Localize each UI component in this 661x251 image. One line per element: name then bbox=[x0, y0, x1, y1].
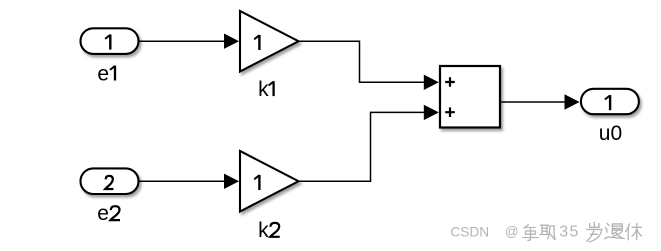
gain block k2 bbox=[240, 151, 299, 212]
svg-text:@: @ bbox=[505, 224, 519, 239]
char zheng (争) bbox=[523, 225, 539, 241]
svg-text:u0: u0 bbox=[599, 122, 622, 145]
svg-text:k: k bbox=[258, 219, 269, 242]
svg-text:e: e bbox=[97, 63, 109, 86]
gain k1 value 1 bbox=[254, 35, 259, 50]
char xiu (休) bbox=[626, 224, 642, 240]
arrowhead into k1 bbox=[224, 34, 239, 49]
svg-text:CSDN: CSDN bbox=[450, 224, 489, 239]
gain block k1 bbox=[240, 11, 299, 72]
wire sum to u0 bbox=[500, 101, 566, 103]
inport e2 port number 2 bbox=[105, 176, 113, 189]
wire e1 to k1 bbox=[140, 40, 227, 42]
arrowhead into sum input 1 bbox=[424, 75, 439, 90]
arrowhead into k2 bbox=[224, 174, 239, 189]
char tui (退) bbox=[605, 223, 625, 238]
outport u0 port number 1 bbox=[605, 95, 610, 110]
wire k2 to sum input 2 bbox=[299, 112, 426, 181]
sum sign plus 1 bbox=[445, 77, 455, 87]
outport block u0 bbox=[581, 89, 639, 114]
inport e1 port number 1 bbox=[105, 35, 110, 50]
inport block e2 bbox=[81, 168, 139, 194]
svg-text:35: 35 bbox=[559, 223, 579, 240]
sum block bbox=[440, 66, 500, 128]
sum sign plus 2 bbox=[445, 107, 455, 117]
svg-text:k: k bbox=[258, 78, 269, 101]
watermark CJK glyphs (hand-drawn strokes) bbox=[523, 225, 555, 241]
svg-text:e: e bbox=[97, 202, 109, 225]
gain k2 value 1 bbox=[254, 175, 259, 190]
inport block e1 bbox=[81, 28, 139, 54]
arrowhead into sum input 2 bbox=[424, 105, 439, 120]
wire e2 to k2 bbox=[140, 180, 227, 182]
arrowhead into u0 bbox=[565, 94, 580, 109]
char qu (取) bbox=[540, 225, 555, 239]
wire k1 to sum input 1 bbox=[299, 41, 426, 82]
char sui (岁) bbox=[587, 222, 602, 242]
